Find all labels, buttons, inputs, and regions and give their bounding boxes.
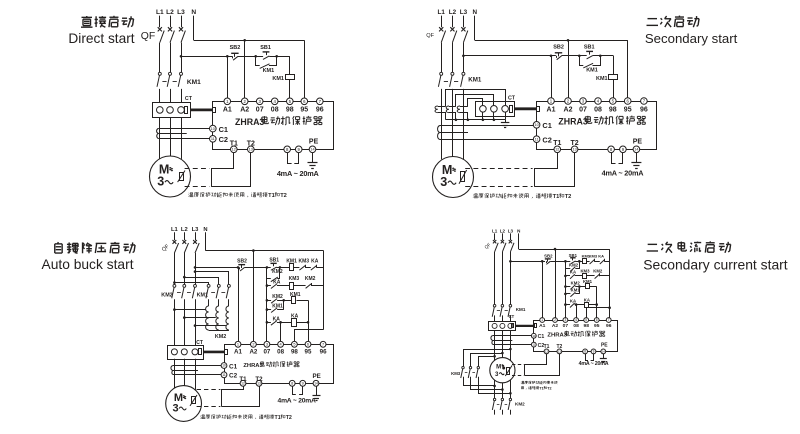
wire T1 to thermistor link (TL) [212, 153, 234, 187]
terminal 10 circle (BL) [221, 363, 227, 369]
svg-text:13: 13 [249, 148, 253, 152]
svg-text:L2: L2 [181, 227, 188, 233]
junction row5 / terminal4 drop (BR) [575, 303, 578, 306]
CT ring 1 (TR) [480, 106, 487, 113]
wire rail jog to terminal 5/98 (BR) [587, 308, 610, 318]
wire row4 a (BR) [575, 293, 579, 295]
ladder left rail (BR) [565, 261, 567, 317]
wire control tap to SB2 (BL) [195, 267, 239, 269]
wire SB2 to SB1 (BR) [550, 261, 570, 263]
wire row1 c (BR) [605, 261, 610, 263]
svg-text:14: 14 [314, 382, 318, 386]
terminal label 07 (BR) [563, 323, 569, 329]
terminal label C1 (TR) [542, 121, 551, 130]
wire row3 a (BR) [575, 286, 586, 288]
svg-text:9: 9 [302, 381, 304, 386]
terminal 1 circle (TR) [548, 98, 555, 105]
junction L2 / bracket tap (BR) [501, 352, 504, 355]
coil KA (BL) [292, 319, 297, 327]
CT secondary winding phase 3 (TR) [457, 106, 460, 113]
pushbutton SB1 (NO start) (BL) [270, 263, 276, 270]
wire coil corner down (TR) [613, 56, 615, 75]
CT loop top jog phase 2 (TR) [449, 106, 456, 108]
contactor KM2 linkage dashes (BL) [177, 292, 191, 294]
CT ring 1 bottom stub (TR) [482, 112, 484, 120]
wire KM1 pole 1 to CT box (TL) [159, 89, 161, 103]
wire KM1 pole 2 to autotransformer (BL) [218, 299, 220, 306]
svg-text:KM3: KM3 [451, 371, 461, 376]
terminal label 96 (BL) [320, 348, 327, 355]
wire A2 drop to terminal 2 (TL) [244, 40, 246, 98]
wire A1 drop to terminal 1 (TL) [227, 56, 229, 98]
note text 温度保护... (BL) [201, 414, 292, 420]
terminal label T1 (BL) [239, 376, 247, 383]
svg-text:L1: L1 [156, 9, 164, 16]
wire N drop (TR) [474, 16, 476, 41]
terminal label T1 (TL) [230, 140, 238, 147]
coil KM3 (BL) [290, 283, 294, 290]
ground symbol (BL) [313, 396, 321, 401]
wire row5 rail to KA (BR) [565, 304, 570, 306]
wire phase L3 to motor (TR) [463, 89, 465, 159]
contact KM1 NO row4 (BR) [570, 292, 575, 297]
contact KM1 aux label (TR) [586, 68, 598, 74]
svg-text:C2: C2 [542, 135, 551, 144]
wire phase L3 QF down (BL) [195, 253, 197, 284]
svg-text:T2: T2 [286, 415, 292, 421]
contact KM3 NC row1 (BR) [590, 259, 595, 264]
contactor KM1 main contact pole 1 (TR) [438, 72, 442, 87]
junction elbow2/motor (BR) [501, 388, 504, 391]
current transformer CT box (BL) [168, 346, 204, 360]
terminal label C1 (BR) [538, 334, 545, 340]
junction SB1 left (TR) [578, 55, 581, 58]
svg-text:12: 12 [555, 148, 559, 152]
node label L3 (TR) [460, 9, 468, 16]
wire phase L3 top segment (BL) [195, 232, 197, 240]
relay name text ZHRA3电动机保护器 (TL) [235, 116, 322, 127]
svg-text:8: 8 [584, 350, 586, 354]
svg-text:5: 5 [585, 318, 587, 322]
junction CT bottom rail (TR) [467, 119, 470, 122]
junction SB1 right (BR) [578, 260, 581, 263]
label 4mA~20mA (TR) [602, 169, 645, 178]
coil KA (BR) [585, 303, 589, 308]
thick CT-to-relay bar (TR) [514, 107, 536, 110]
breaker QF pole L3 blade (TL) [181, 31, 185, 43]
terminal 6 circle (BL) [305, 341, 311, 347]
CT ring 3 bottom stub (TR) [505, 112, 507, 120]
terminal 8 circle (TR) [608, 146, 615, 153]
junction rail row3 (BR) [564, 285, 567, 288]
wire KM2 pole 3 to CT (BL) [195, 299, 197, 345]
svg-text:96: 96 [606, 323, 612, 329]
wire row1 c (BL) [317, 267, 324, 269]
wire KM1 pole 3 to autotransformer (BL) [228, 299, 230, 306]
CT ring 2 (BR) [500, 323, 505, 328]
pushbutton SB1 label (BL) [269, 258, 279, 264]
wire phase L2 QF to KM1 (TL) [170, 43, 172, 73]
svg-text:KM2: KM2 [571, 280, 581, 285]
junction row5 / side rail (BL) [307, 321, 310, 324]
svg-text:T1: T1 [553, 194, 560, 200]
wire SB1 to coil (BR) [575, 261, 583, 263]
terminal 14 circle (TR) [633, 146, 640, 153]
breaker QF pole L3 cross (TR) [461, 27, 465, 31]
terminal label 95 (BR) [594, 323, 600, 329]
breaker QF pole L1 cross (BR) [493, 240, 496, 243]
wire row2 b (BR) [587, 275, 595, 277]
wire phase L1 top segment (TL) [159, 16, 161, 28]
terminal 3 circle (TL) [256, 98, 263, 105]
svg-text:N: N [203, 227, 207, 233]
svg-text:L3: L3 [508, 228, 514, 233]
dashed thermistor wire lower (BL) [197, 406, 221, 408]
wire phase L3 CT to motor (BR) [510, 330, 512, 360]
thermistor in motor (BL) [190, 395, 197, 406]
svg-text:SB1: SB1 [584, 45, 595, 51]
current sensing loop C1/C2 (TL) [157, 129, 210, 139]
svg-text:1: 1 [541, 318, 543, 322]
breaker QF pole L1 cross (TL) [158, 27, 162, 31]
coil KM1 label (TL) [272, 76, 284, 82]
svg-text:C1: C1 [219, 125, 228, 134]
wire KM2 aux branch right (BR) [575, 261, 579, 268]
svg-text:A1: A1 [539, 323, 546, 329]
terminal 8 circle (TL) [284, 146, 291, 153]
wire A1 drop to terminal 1 (TR) [551, 56, 553, 98]
wire phase L3 CT to motor (TL) [181, 117, 183, 159]
wire phase L3 top segment (TR) [463, 16, 465, 28]
svg-text:08: 08 [594, 106, 602, 113]
contactor KM2 label (BR) [515, 402, 525, 407]
svg-text:KA: KA [598, 254, 604, 259]
label 4mA~20mA (TL) [277, 169, 320, 178]
pushbutton SB1 label (BR) [569, 253, 578, 258]
CT ring 1 (BL) [171, 349, 177, 355]
contact KM2 NO row3 (BR) [570, 285, 575, 290]
breaker QF pole L2 cross (TR) [450, 27, 454, 31]
terminal label C2 (TL) [219, 135, 228, 144]
dashed thermistor wire lower (BR) [512, 375, 524, 377]
svg-text:CT: CT [509, 314, 515, 319]
relay name text ZHRA3电动机保护器 (BR) [547, 331, 604, 339]
terminal 13 circle (BR) [557, 349, 562, 354]
wire row2 b (BL) [294, 285, 306, 287]
junction ladder left rail top (BR) [564, 260, 567, 263]
node label N (TR) [473, 9, 478, 16]
CT loop top rail 1 (TR) [446, 90, 506, 107]
contactor KM1 linkage dashes (TL) [162, 81, 176, 83]
svg-text:11: 11 [535, 138, 539, 142]
coil KA label (BL) [291, 314, 299, 320]
junction rail row2 (BR) [564, 275, 567, 278]
terminal 7 circle (TR) [641, 98, 648, 105]
svg-text:11: 11 [222, 373, 226, 377]
wire KM1 aux branch left (TR) [580, 56, 584, 66]
wire control tap L3 to SB2 (TL) [181, 56, 232, 58]
svg-text:10: 10 [532, 334, 536, 338]
svg-text:QF: QF [426, 33, 434, 39]
wire row1 b (BL) [305, 267, 311, 269]
terminal 12 circle (BL) [240, 380, 246, 386]
motor M 3~ (BR) [490, 358, 515, 383]
wire KM2 pole 1 stub (BR) [494, 410, 496, 415]
node label L3 (TL) [177, 9, 185, 16]
CT output small rect (TR) [510, 106, 513, 113]
junction L1 / bracket tap (BR) [493, 355, 496, 358]
junction N rail / A2 drop (BL) [252, 249, 255, 252]
coil KM1 row3 (BL) [292, 297, 296, 304]
autotransformer KM2 label (BL) [215, 334, 226, 340]
protector relay box ZHRA3 (BL) [225, 345, 334, 384]
wire phase L3 top segment (BR) [510, 233, 512, 240]
svg-text:T1: T1 [275, 415, 281, 421]
wire phase L3 QF to KM1 (BR) [510, 252, 512, 305]
wire coil corner down (TL) [289, 56, 291, 75]
terminal label A1 (BR) [539, 323, 546, 329]
terminal 11 circle (BR) [531, 342, 536, 347]
junction L3 / bracket tap (BR) [509, 348, 512, 351]
junction rail row3 (BL) [266, 299, 269, 302]
svg-text:8: 8 [291, 381, 293, 386]
junction SB1 right (TL) [275, 55, 278, 58]
breaker QF label (TR) [426, 33, 434, 39]
autotransformer winding 1 (BL) [206, 306, 209, 330]
wire KM1 pole 2 to CT (BR) [502, 315, 504, 321]
current sensing loop C1/C2 (BL) [171, 366, 221, 375]
breaker QF label (TL) [141, 31, 155, 42]
contactor KM3 main contact pole 1 (BR) [461, 366, 464, 378]
thick CT-to-relay bar (TL) [191, 109, 213, 112]
terminal 6 circle (TL) [301, 98, 308, 105]
title Auto buck start (English) [42, 257, 134, 272]
contactor KM2 star contact pole 2 (BR) [500, 398, 503, 410]
svg-text:T1: T1 [268, 193, 275, 199]
current sensing loop C1/C2 (BR) [491, 336, 531, 345]
coil KM1 (TR) [609, 75, 618, 80]
contactor KM2 main contact pole 3 (BL) [192, 284, 196, 298]
contact KA NC row1 label (BL) [311, 259, 319, 265]
wire row3 b (BR) [590, 286, 597, 288]
breaker QF pole L3 blade (BL) [195, 243, 199, 253]
breaker QF pole L3 blade (TR) [463, 31, 467, 43]
node label L3 (BL) [192, 227, 200, 233]
relay input small rect (BL) [225, 350, 228, 355]
pushbutton SB1 (NO start) (TL) [263, 52, 270, 60]
title Secondary start (English) [645, 31, 738, 46]
svg-text:A1: A1 [547, 106, 556, 113]
svg-text:10: 10 [211, 127, 215, 131]
contact KM2 aux label (BL) [272, 269, 283, 275]
svg-text:7: 7 [322, 342, 324, 347]
wire phase L1 top segment (BL) [174, 232, 176, 240]
junction rail row5 (BR) [564, 303, 567, 306]
svg-text:T1: T1 [539, 386, 543, 390]
node label L2 (BR) [500, 228, 506, 233]
svg-text:A2: A2 [240, 106, 249, 113]
wire T1 to thermistor link (BL) [222, 386, 244, 407]
svg-text:07: 07 [563, 323, 569, 329]
svg-text:KM1: KM1 [187, 79, 201, 86]
contact KA NC row1 label (BR) [598, 254, 604, 259]
svg-text:98: 98 [286, 106, 294, 113]
svg-text:N: N [191, 9, 196, 16]
junction SB2 left / A1 drop (BR) [541, 260, 544, 263]
wire phase L1 CT to motor (BL) [174, 359, 176, 389]
svg-text:4: 4 [575, 318, 577, 322]
terminal label C2 (BL) [229, 373, 238, 380]
terminal 6 circle (BR) [594, 318, 599, 323]
svg-text:14: 14 [310, 148, 314, 152]
wire phase L3 QF to KM1 (TL) [181, 43, 183, 73]
pushbutton SB2 label (BR) [544, 254, 553, 259]
breaker QF pole L1 cross (BL) [173, 240, 177, 244]
autotransformer winding 2 (BL) [216, 306, 219, 330]
coil KM1 row1 label (BR) [582, 254, 591, 259]
svg-text:KA: KA [570, 269, 576, 274]
CT output small rect (TL) [185, 107, 188, 114]
terminal label T2 (TL) [247, 140, 255, 147]
terminal 8 circle (BL) [289, 380, 295, 386]
terminal 11 circle (TL) [210, 136, 217, 143]
wire KM3 pole3 elbow (BR) [479, 377, 511, 394]
svg-text:L1: L1 [492, 228, 498, 233]
wire 4-20mA hooks (BR) [586, 354, 594, 361]
wire row5 b (BR) [589, 304, 597, 306]
svg-text:KM2: KM2 [215, 334, 226, 340]
contact KM1 aux (NO, parallel SB1) (TR) [583, 63, 593, 68]
pushbutton SB2 (NC stop) (BR) [545, 259, 551, 265]
wire SB2 to SB1 (TR) [562, 55, 587, 57]
terminal label 96 (BR) [606, 323, 612, 329]
terminal 1 circle (BL) [235, 341, 241, 347]
svg-text:11: 11 [532, 343, 535, 347]
contact KA NO row2 label (BL) [273, 279, 281, 285]
wire bracket L2 to KM3 pole2 (BR) [471, 354, 503, 367]
contactor KM1 main contact pole 2 (TR) [450, 72, 454, 87]
terminal 13 circle (TL) [248, 146, 255, 153]
terminal 1 circle (BR) [540, 318, 545, 323]
contact KA NO row2 (BL) [271, 284, 277, 289]
junction L3 / control tap (BL) [194, 266, 197, 269]
wire row1 a (BR) [587, 261, 590, 263]
terminal label 95 (TL) [300, 106, 308, 113]
svg-text:L1: L1 [438, 9, 446, 16]
thick CT-to-relay bar (BR) [515, 325, 535, 327]
junction rail row4 (BL) [266, 308, 269, 311]
contactor KM3 label (BR) [451, 371, 461, 376]
terminal label C2 (BR) [538, 343, 545, 349]
wire phase L1 QF to KM1 (TL) [159, 43, 161, 73]
junction L3 / tap-back (BL) [194, 324, 197, 327]
CT loop bottom jog 3 (TR) [460, 113, 468, 120]
breaker QF pole L2 blade (BL) [184, 243, 188, 253]
current transformer CT label (BL) [196, 340, 203, 346]
terminal label T2 (BR) [556, 344, 562, 350]
wire row2 c (BL) [311, 285, 323, 287]
wire N rail to terminal 6/95 (TL) [304, 40, 306, 98]
thermistor in motor (BR) [505, 365, 512, 376]
ladder right rail (BR) [609, 249, 611, 318]
wire KM1 aux branch left (TL) [256, 56, 260, 65]
contact KM2 NO row3 label (BL) [272, 294, 283, 300]
svg-text:SB2: SB2 [230, 45, 241, 51]
terminal label C1 (TL) [219, 125, 228, 134]
terminal label 95 (BL) [305, 348, 312, 355]
wire KM1 pole 1 to autotransformer (BL) [208, 299, 210, 306]
breaker QF pole L1 blade (TL) [160, 31, 164, 43]
wire tap L1 to KM1 pole1 (BL) [174, 283, 208, 285]
note text line2 用，请短接T1和T2 (BR) [521, 386, 551, 390]
svg-text:08: 08 [277, 348, 284, 355]
svg-text:3: 3 [440, 175, 447, 189]
CT secondary winding phase 1 (TR) [435, 106, 438, 113]
ladder left rail (BL) [266, 267, 268, 341]
node label N (BL) [203, 227, 207, 233]
svg-text:13: 13 [257, 382, 261, 386]
svg-text:QF: QF [141, 31, 155, 42]
svg-text:KM1: KM1 [586, 68, 598, 74]
wire phase L2 CT to motor (TL) [170, 117, 172, 156]
svg-text:KM2: KM2 [569, 263, 579, 268]
junction L3 / control tap (TR) [462, 55, 465, 58]
junction SB1 left (TL) [254, 55, 257, 58]
contactor KM1 linkage dashes (BR) [497, 310, 508, 312]
wire tap-back to winding3 (BL) [195, 325, 226, 327]
relay name text ZHRA3电动机保护器 (TR) [558, 116, 645, 127]
breaker QF pole L2 blade (TL) [170, 31, 174, 43]
coil KM1 row3 label (BR) [583, 279, 593, 284]
contactor KM2 main contact pole 2 (BL) [182, 284, 186, 298]
svg-text:95: 95 [624, 106, 632, 113]
svg-text:13: 13 [572, 148, 576, 152]
svg-text:KM3: KM3 [289, 276, 300, 282]
contact KM2 NC row2 label (BR) [593, 268, 603, 273]
coil side rail (BR) [596, 287, 598, 318]
contact KM1 aux (NO, parallel SB1) (TL) [260, 64, 270, 69]
svg-text:ZHRA3: ZHRA3 [558, 117, 587, 127]
coil KM1 (TL) [286, 75, 295, 80]
junction CT bottom rail (TR) [482, 119, 485, 122]
svg-text:98: 98 [583, 323, 589, 329]
wire KM2 pole 1 to CT (BL) [174, 299, 176, 345]
wire phase L2 QF to KM1 (BR) [502, 252, 504, 305]
terminal label 07 (TL) [256, 106, 264, 113]
CT ring 2 (BL) [181, 349, 187, 355]
CT loop bottom jog 2 (TR) [449, 113, 456, 120]
note text 温度保护... (TR) [473, 193, 571, 200]
wire row3 b (BL) [297, 300, 309, 302]
terminal 14 circle (BR) [601, 349, 606, 354]
wire phase L3 QF to KM1 (TR) [463, 43, 465, 73]
wire row3 rail to KM2 (BR) [565, 286, 570, 288]
contact KM3 NC row1 (BL) [299, 265, 305, 270]
title Direct start (English) [68, 31, 134, 46]
svg-text:SB2: SB2 [544, 254, 553, 259]
wire control tap L3 to SB2 (TR) [463, 55, 556, 57]
terminal 9 circle (BL) [300, 380, 306, 386]
terminal label 98 (TR) [609, 106, 617, 113]
CT output small rect (BR) [512, 324, 514, 328]
wire SB2 to SB1 (TL) [238, 56, 263, 58]
wire tap-back to winding2 (BL) [184, 317, 216, 319]
svg-text:10: 10 [534, 123, 538, 127]
junction ladder left rail top (BL) [266, 266, 269, 269]
junction L2 / tap-back (BL) [183, 316, 186, 319]
CT loop top rail 3 (TR) [468, 99, 483, 107]
terminal 2 circle (BR) [553, 318, 558, 323]
